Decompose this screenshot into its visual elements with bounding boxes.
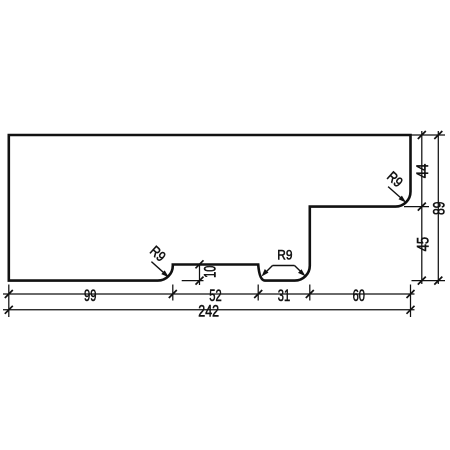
svg-text:44: 44 — [413, 164, 432, 179]
svg-text:10: 10 — [201, 266, 220, 278]
tick row1 x=172.8 — [169, 290, 177, 298]
tick row2 x=8.8 — [5, 306, 13, 314]
tick row1 x=258.2 — [254, 290, 262, 298]
leader R9 dip left — [264, 266, 273, 275]
extension line top right (y=135) — [411, 134, 446, 136]
dimension line col 89 — [437, 131, 439, 284]
tick col1 y=206.6 — [418, 203, 426, 211]
dimension line 10 (vertical) — [199, 264, 201, 285]
svg-text:89: 89 — [430, 201, 449, 215]
leader R9 dip right — [295, 266, 304, 275]
leader R9 left notch — [151, 262, 166, 276]
svg-text:R9: R9 — [277, 247, 292, 263]
leader R9 top right — [388, 187, 404, 201]
arrowhead R9 left notch — [161, 270, 169, 277]
extension line bottom left (x=8.8) — [8, 285, 10, 318]
tick col1 y=280.6 — [418, 277, 426, 285]
tick 10 bottom y=280.6 — [196, 277, 204, 285]
tick 10 top y=264.3 — [196, 260, 204, 268]
arrowhead R9 dip right — [298, 269, 306, 276]
profile outline — [9, 135, 411, 281]
svg-text:60: 60 — [353, 286, 365, 305]
tick row1 x=410.5 — [407, 290, 415, 298]
extension line x=309.8 — [309, 285, 311, 301]
tick col1 y=135 — [418, 131, 426, 139]
extension line x=172.8 — [172, 285, 174, 301]
leader bar R9 dip — [273, 265, 295, 267]
tick col2 y=280.6 — [434, 277, 442, 285]
extension line ledge right (y=206.6) — [404, 206, 429, 208]
tick row2 x=410.5 — [407, 306, 415, 314]
svg-text:31: 31 — [278, 286, 290, 305]
tick row1 x=8.8 — [5, 290, 13, 298]
arrowhead R9 top right — [399, 196, 407, 203]
dimension line col 44/45 — [421, 131, 423, 284]
extension bar bottom level for 10 — [182, 280, 204, 282]
svg-text:45: 45 — [414, 237, 433, 252]
extension line x=258.2 — [257, 285, 259, 301]
arrowhead R9 dip left — [262, 269, 269, 277]
tick col2 y=135 — [434, 131, 442, 139]
dimension line row 242 — [3, 309, 415, 311]
extension line bottom level right (y=280.6) — [412, 280, 446, 282]
svg-text:242: 242 — [198, 302, 219, 321]
dimension line row 99/52/31/60 — [3, 293, 415, 295]
extension line bottom right (x=410.5) — [410, 285, 412, 318]
svg-text:99: 99 — [84, 286, 96, 305]
tick row1 x=309.8 — [306, 290, 314, 298]
